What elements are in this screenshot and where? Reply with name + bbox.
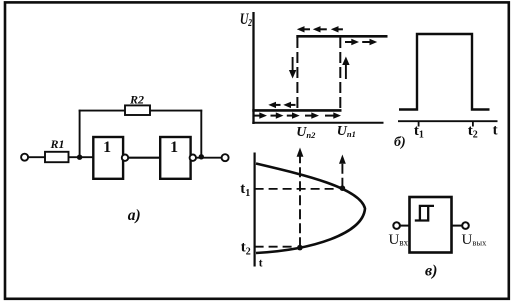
wire feedback right segment: [150, 110, 202, 112]
dashed vertical at Up2: [296, 37, 298, 110]
point on curve at t1: [340, 185, 346, 191]
svg-text:R2: R2: [129, 93, 144, 107]
dashed level t1: [255, 188, 339, 190]
svg-text:в): в): [425, 263, 437, 280]
wire down to output node: [200, 110, 202, 158]
resistor R2: [125, 105, 150, 115]
svg-text:t: t: [493, 123, 498, 139]
svg-text:а): а): [128, 207, 141, 224]
hysteresis symbol upper stroke: [420, 206, 434, 221]
hysteresis low level line: [252, 109, 341, 112]
resistor R1: [45, 152, 69, 162]
down arrow on left branch: [289, 57, 296, 79]
wire R1 to gate DD1: [69, 156, 94, 158]
hysteresis graph X axis: [252, 122, 383, 124]
wire DD2 to output: [196, 157, 222, 159]
wire feedback left segment: [79, 110, 125, 112]
logic gate DD2: [160, 137, 190, 179]
right arrows below high line: [345, 39, 377, 45]
svg-text:б): б): [394, 135, 406, 150]
tick t2: [472, 121, 474, 126]
wire block to output: [452, 225, 463, 227]
Schmitt trigger block: [410, 197, 452, 253]
tick t1: [418, 121, 420, 126]
label U2: [240, 12, 253, 29]
left arrows above high line: [297, 26, 343, 32]
wire input to R1: [28, 156, 45, 158]
output terminal Uvyx: [462, 222, 469, 229]
node A junction: [77, 155, 82, 160]
svg-text:R1: R1: [50, 137, 65, 151]
pulse graph waveform: [399, 34, 490, 110]
hysteresis symbol lower stroke: [415, 206, 428, 221]
dashed vertical at Up1: [339, 37, 341, 110]
dashed vertical up from t2 point: [297, 148, 304, 248]
dashed level t2: [255, 246, 297, 248]
gate DD2 output bubble: [190, 155, 196, 161]
svg-text:1: 1: [103, 139, 111, 156]
left arrows above low line: [268, 102, 295, 108]
dashed vertical up from t1 point: [339, 155, 346, 188]
lower graph vertical axis: [254, 153, 256, 267]
gate DD1 output bubble: [122, 155, 128, 161]
logic gate DD1: [93, 137, 123, 179]
input terminal: [21, 154, 28, 161]
up arrow on right branch: [342, 57, 349, 80]
svg-text:1: 1: [170, 139, 178, 156]
hysteresis high level line: [296, 35, 387, 38]
pulse graph time axis: [398, 120, 498, 122]
wire input to block: [400, 225, 410, 227]
right arrows below low line: [254, 112, 341, 118]
wire DD1 to DD2: [128, 157, 160, 159]
output node junction: [199, 154, 204, 159]
hysteresis graph Y axis: [252, 12, 254, 124]
input terminal Uvx: [393, 222, 400, 229]
svg-text:t: t: [259, 258, 263, 270]
point on curve at t2: [297, 245, 303, 251]
wire node A up to feedback: [79, 110, 81, 158]
output terminal: [222, 154, 229, 161]
charging curve: [256, 164, 365, 254]
